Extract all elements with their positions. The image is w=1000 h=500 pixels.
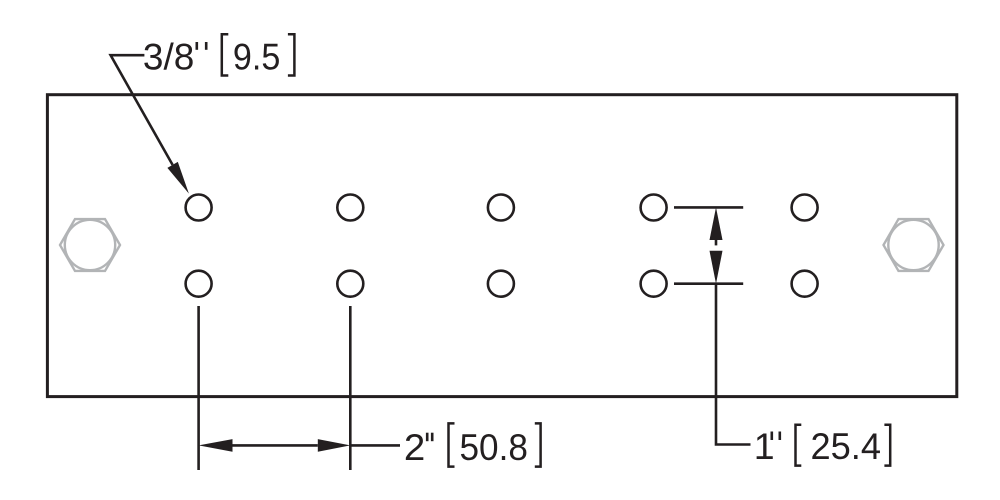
ditto quotes after 1 — [772, 432, 780, 441]
label 1" [25.4] — [754, 425, 881, 467]
leader arrowhead — [167, 162, 189, 194]
plate outline — [47, 95, 956, 397]
label 2" [50.8] — [404, 426, 528, 468]
svg-text:1: 1 — [754, 425, 775, 467]
leader line for 3/8 inch hole callout — [111, 55, 173, 165]
dimension 1 inch: down arrowhead — [710, 251, 723, 284]
label 3/8" [9.5] — [143, 36, 280, 78]
hole B5 — [792, 271, 818, 297]
hole A1 — [186, 195, 212, 221]
svg-text:9.5: 9.5 — [233, 36, 280, 78]
dimension 1 inch: leader to label — [716, 284, 751, 445]
dimension 1 inch: up arrow stub — [715, 240, 718, 245]
hole B1 — [186, 271, 212, 297]
bracket [ of 25.4 — [796, 425, 802, 466]
ditto quotes after 2 — [427, 433, 432, 442]
bolt head right (hex + chamfer circle) — [884, 219, 944, 271]
hole A3 — [488, 195, 514, 221]
extension line from hole B2 — [349, 306, 352, 470]
svg-text:2: 2 — [404, 426, 425, 468]
svg-text:50.8: 50.8 — [460, 426, 528, 468]
bracket ] of 25.4 — [884, 425, 890, 466]
ditto quotes after 3/8 — [197, 42, 206, 50]
bracket ] of 9.5 — [288, 34, 295, 75]
hole B3 — [488, 271, 514, 297]
hole A4 — [641, 195, 667, 221]
dimension 1 inch: top reference line — [674, 206, 743, 209]
hole B4 — [641, 271, 667, 297]
hole A2 — [337, 195, 363, 221]
dimension 1 inch: up arrowhead — [710, 207, 723, 240]
dimension 2 inch: shaft — [233, 444, 318, 447]
hole A5 — [792, 195, 818, 221]
svg-text:25.4: 25.4 — [811, 425, 882, 467]
dimension 2 inch: right arrowhead — [318, 439, 351, 452]
bolt head left (hex + chamfer circle) — [60, 219, 120, 271]
bracket [ of 9.5 — [222, 34, 229, 75]
dimension 2 inch: left arrowhead — [199, 439, 233, 452]
svg-text:3/8: 3/8 — [143, 36, 194, 78]
hole B2 — [337, 271, 363, 297]
bracket ] of 50.8 — [535, 423, 541, 466]
dimension 2 inch: leader to label — [350, 444, 400, 447]
bracket [ of 50.8 — [449, 423, 455, 466]
dimension 1 inch: bottom reference line — [674, 282, 743, 285]
extension line from hole B1 — [197, 306, 200, 470]
